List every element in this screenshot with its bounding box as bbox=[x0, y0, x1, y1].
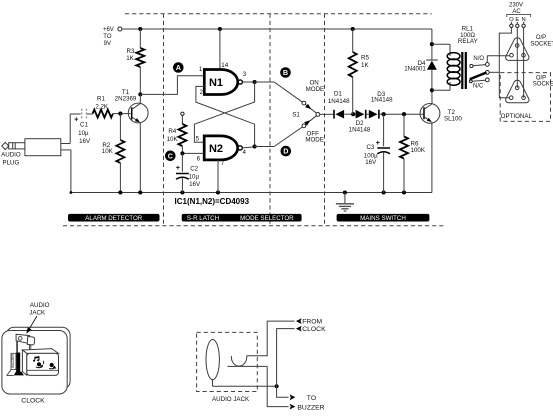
resistor R6 bbox=[400, 114, 408, 192]
label N/C bbox=[473, 83, 484, 89]
svg-text:O/P: O/P bbox=[536, 35, 546, 41]
svg-text:JACK: JACK bbox=[29, 310, 46, 317]
section frame bottom dashed line bbox=[63, 225, 446, 227]
label bar S-R LATCH / MODE SELECTOR bbox=[182, 214, 302, 222]
resistor R4 bbox=[178, 112, 186, 153]
relay contact N/O bbox=[470, 63, 489, 68]
svg-text:7: 7 bbox=[221, 160, 225, 167]
junction rail-R5 bbox=[351, 27, 355, 31]
arrow FROM bbox=[296, 318, 302, 324]
nand gate N2 bbox=[204, 136, 242, 160]
O/P socket2 body bbox=[506, 80, 529, 103]
capacitor C2 bbox=[176, 153, 189, 192]
label pin 5 bbox=[196, 136, 200, 143]
svg-text:TO: TO bbox=[103, 34, 112, 40]
label AUDIO JACK (clock) bbox=[29, 302, 49, 316]
transistor T1 bbox=[128, 94, 148, 192]
wire D1 to D2 bbox=[344, 113, 355, 115]
clock knob 1 bbox=[36, 361, 44, 368]
terminal N bbox=[522, 22, 525, 28]
svg-text:MAINS SWITCH: MAINS SWITCH bbox=[360, 215, 406, 222]
resistor R2 bbox=[116, 114, 124, 193]
label audio plug bbox=[1, 152, 21, 167]
label CLOCK bbox=[21, 398, 45, 405]
svg-text:D1: D1 bbox=[334, 91, 342, 98]
junction rail-R3 bbox=[138, 27, 142, 31]
wire R4 to N2 pin6 bbox=[182, 152, 204, 154]
wire S1 pole to D1 bbox=[320, 113, 334, 115]
svg-text:2N2369: 2N2369 bbox=[115, 95, 137, 102]
svg-text:C3: C3 bbox=[366, 144, 374, 151]
wire N1out cross to N2 pin5 bbox=[194, 82, 254, 142]
wire N2out cross to N1 pin2 bbox=[196, 86, 255, 146]
label FROM bbox=[302, 318, 322, 325]
svg-text:16V: 16V bbox=[79, 138, 91, 145]
svg-text:2.2K: 2.2K bbox=[95, 104, 109, 111]
node B bbox=[280, 67, 291, 78]
svg-text:1N4001: 1N4001 bbox=[404, 66, 426, 73]
supply terminal +6V bbox=[103, 27, 122, 47]
label R2 bbox=[102, 142, 114, 155]
svg-text:PLUG: PLUG bbox=[2, 159, 19, 166]
svg-text:16V: 16V bbox=[365, 159, 377, 166]
label R4 bbox=[167, 128, 179, 143]
svg-text:230V: 230V bbox=[509, 3, 523, 9]
arrow to jack bbox=[26, 316, 37, 334]
svg-text:SOCKET2: SOCKET2 bbox=[533, 82, 553, 88]
label ON MODE bbox=[306, 80, 325, 93]
capacitor C3 bbox=[376, 114, 390, 192]
node A bbox=[173, 62, 184, 73]
svg-text:MODE: MODE bbox=[306, 86, 325, 93]
wire rail to D4/relay bbox=[431, 29, 433, 90]
svg-text:B: B bbox=[283, 68, 288, 77]
svg-text:+: + bbox=[376, 138, 381, 147]
junction collector node bbox=[138, 92, 142, 96]
socket1 pin holes bbox=[510, 44, 526, 57]
svg-text:IC1(N1,N2)=CD4093: IC1(N1,N2)=CD4093 bbox=[175, 197, 250, 206]
label C2 bbox=[189, 166, 201, 188]
junction rail-plug bbox=[70, 191, 73, 194]
node D bbox=[281, 146, 292, 157]
switch S1 arm lower bbox=[304, 116, 316, 126]
svg-text:TO: TO bbox=[307, 395, 316, 402]
ground symbol bbox=[336, 193, 354, 212]
label pin 6 bbox=[197, 155, 201, 162]
diode D3 bbox=[369, 110, 379, 119]
svg-text:14: 14 bbox=[221, 62, 228, 69]
clock buzzer bbox=[7, 353, 24, 376]
wire top power rail bbox=[122, 28, 432, 30]
label OFF MODE bbox=[305, 131, 324, 144]
junction R6 node bbox=[402, 112, 406, 116]
section divider dashed x=324.5 bbox=[324, 14, 326, 226]
svg-text:AUDIO: AUDIO bbox=[1, 152, 21, 159]
svg-text:MODE: MODE bbox=[305, 137, 324, 144]
svg-text:SL100: SL100 bbox=[444, 115, 462, 122]
wire D3 to T2 base bbox=[379, 113, 424, 115]
label CLOCK (arrow) bbox=[302, 326, 326, 333]
junction rail-C3 bbox=[382, 190, 386, 194]
svg-text:BUZZER: BUZZER bbox=[11, 353, 15, 367]
label C1 bbox=[78, 122, 91, 145]
wire plug tip to C1 bbox=[61, 114, 81, 144]
wire spring to FROM bbox=[247, 321, 295, 356]
svg-text:C1: C1 bbox=[80, 122, 88, 129]
wire D2 to D3 bbox=[366, 113, 369, 115]
junction rail-pin14 bbox=[218, 27, 222, 31]
svg-text:10K: 10K bbox=[102, 148, 114, 155]
terminal E bbox=[516, 22, 519, 28]
wire collector to N1 pin1 bbox=[140, 76, 204, 95]
label S1 bbox=[292, 112, 300, 119]
diode D4 bbox=[426, 60, 437, 70]
audio plug bbox=[2, 139, 61, 156]
wire N to socket pins bbox=[523, 28, 525, 98]
svg-text:BUZZER: BUZZER bbox=[297, 405, 324, 412]
label O E N bbox=[507, 14, 531, 22]
wire bottom ground rail bbox=[71, 192, 432, 194]
label R5 bbox=[361, 54, 369, 68]
arrow TO bbox=[290, 394, 296, 400]
junction rail-R6 bbox=[402, 190, 406, 194]
O/P socket1 body bbox=[506, 38, 529, 61]
diode D1 bbox=[334, 110, 344, 119]
label C3 bbox=[364, 144, 378, 166]
svg-text:100K: 100K bbox=[411, 147, 426, 154]
arrow CLOCK bbox=[296, 326, 302, 332]
label D1 bbox=[328, 91, 350, 105]
label R3 bbox=[126, 48, 135, 62]
wire O to pole and socket2 bbox=[489, 28, 511, 98]
junction R5-diodes bbox=[351, 112, 355, 116]
clock music note glyph bbox=[33, 356, 39, 362]
switch S1 arm upper bbox=[305, 104, 316, 113]
resistor R3 bbox=[136, 29, 144, 94]
svg-text:10K: 10K bbox=[167, 136, 179, 143]
wire E to socket pins bbox=[516, 28, 518, 88]
svg-text:ALARM DETECTOR: ALARM DETECTOR bbox=[85, 215, 142, 222]
wire N1 output bbox=[242, 81, 254, 83]
transistor T2 bbox=[420, 90, 440, 192]
svg-text:N/C: N/C bbox=[473, 83, 484, 89]
label pin 2 bbox=[199, 89, 203, 96]
label O/P SOCKET1 bbox=[530, 35, 553, 47]
jack tip contact line bbox=[227, 365, 267, 367]
label bar MAINS SWITCH bbox=[337, 214, 430, 222]
svg-text:R5: R5 bbox=[361, 54, 369, 61]
resistor R1 bbox=[93, 110, 113, 118]
label pin 1 bbox=[199, 66, 203, 73]
junction sleeve node bbox=[275, 384, 279, 388]
svg-text:R4: R4 bbox=[168, 128, 176, 135]
clock jack wire bbox=[29, 345, 31, 357]
label bar ALARM DETECTOR bbox=[68, 214, 160, 222]
relay contact N/C bbox=[469, 78, 489, 83]
clock jack assembly bbox=[16, 334, 35, 352]
diode D2 bbox=[356, 110, 366, 119]
svg-text:+: + bbox=[74, 114, 79, 123]
svg-text:C2: C2 bbox=[190, 166, 198, 173]
label pin 3 bbox=[243, 71, 247, 78]
node C bbox=[165, 151, 176, 162]
label T1 bbox=[115, 89, 137, 102]
svg-text:1N4148: 1N4148 bbox=[349, 126, 371, 133]
junction rail-ground bbox=[343, 190, 347, 194]
wire pin7 to rail bbox=[217, 160, 219, 193]
svg-text:5: 5 bbox=[196, 136, 200, 143]
svg-text:+: + bbox=[176, 163, 181, 172]
svg-text:N2: N2 bbox=[209, 143, 223, 155]
wire CLOCK line bbox=[277, 329, 295, 398]
svg-text:MODE SELECTOR: MODE SELECTOR bbox=[240, 215, 294, 222]
junction relay bottom bbox=[430, 88, 434, 92]
junction rail-R2 bbox=[118, 190, 122, 194]
clock outer box bbox=[2, 327, 70, 394]
svg-text:O/P: O/P bbox=[536, 75, 546, 81]
svg-text:D: D bbox=[283, 147, 288, 156]
wire N/O to socket1 bbox=[487, 56, 510, 63]
resistor R5 bbox=[349, 29, 357, 114]
svg-text:CLOCK: CLOCK bbox=[21, 398, 45, 405]
svg-text:C: C bbox=[168, 151, 173, 160]
svg-text:AC: AC bbox=[512, 9, 521, 15]
section frame top dashed line bbox=[125, 13, 432, 15]
wire pin14 from rail bbox=[219, 29, 221, 70]
junction N2 out bbox=[253, 144, 257, 148]
svg-text:R1: R1 bbox=[97, 96, 105, 103]
junction R4-C2-pin6 bbox=[180, 151, 184, 155]
label AUDIO JACK (jack) bbox=[212, 396, 250, 403]
label T2 bbox=[444, 109, 462, 122]
svg-text:1K: 1K bbox=[126, 55, 134, 62]
label pin 4 bbox=[242, 149, 246, 156]
label BUZZER (arrow) bbox=[297, 405, 324, 412]
wire sleeve to clock vertical bbox=[213, 380, 277, 387]
svg-text:RELAY: RELAY bbox=[458, 38, 478, 45]
section divider dashed x=270 bbox=[269, 14, 271, 226]
svg-text:10µ: 10µ bbox=[189, 174, 200, 181]
relay armature arm bbox=[471, 73, 486, 79]
svg-text:S-R LATCH: S-R LATCH bbox=[187, 215, 219, 222]
wire N2out to S1 lower bbox=[255, 127, 303, 147]
section divider dashed x=163.5 bbox=[163, 14, 165, 226]
junction relay top bbox=[430, 42, 434, 46]
svg-text:S1: S1 bbox=[292, 112, 300, 119]
svg-text:AUDIO JACK: AUDIO JACK bbox=[212, 396, 250, 403]
label R1 bbox=[95, 96, 109, 111]
svg-text:AUDIO: AUDIO bbox=[30, 302, 50, 309]
svg-text:4: 4 bbox=[242, 149, 246, 156]
label IC1 bbox=[175, 197, 250, 206]
nand gate N1 bbox=[204, 70, 242, 95]
svg-text:1N4148: 1N4148 bbox=[371, 96, 393, 103]
wire plug sleeve to ground rail bbox=[61, 150, 71, 193]
label O/P SOCKET2 bbox=[533, 75, 553, 87]
svg-text:FROM: FROM bbox=[302, 318, 322, 325]
svg-text:A: A bbox=[176, 63, 181, 72]
svg-text:SOCKET1: SOCKET1 bbox=[530, 41, 553, 47]
switch S1 upper contact bbox=[302, 101, 306, 105]
optional dashed box bbox=[500, 73, 550, 122]
svg-text:N/O: N/O bbox=[473, 56, 484, 62]
svg-text:1N4148: 1N4148 bbox=[328, 98, 350, 105]
jack spring contact bbox=[231, 356, 246, 366]
junction base node bbox=[118, 112, 122, 116]
svg-text:+6V: +6V bbox=[103, 27, 114, 33]
wire tip to BUZZER bbox=[267, 366, 288, 406]
svg-text:1: 1 bbox=[199, 66, 203, 73]
svg-text:OPTIONAL: OPTIONAL bbox=[501, 113, 533, 120]
relay RL1 coil bbox=[432, 44, 466, 90]
label pin 7 bbox=[221, 160, 225, 167]
label pin 14 bbox=[221, 62, 228, 69]
wire C1 to R1 bbox=[87, 113, 93, 115]
label D3 bbox=[371, 91, 393, 104]
switch S1 pole bbox=[316, 113, 320, 117]
svg-text:6: 6 bbox=[197, 155, 201, 162]
label RL1 bbox=[458, 25, 478, 45]
wire N1out to S1 upper bbox=[255, 82, 303, 102]
svg-text:9V: 9V bbox=[104, 41, 111, 47]
junction rail-C2 bbox=[180, 190, 184, 194]
label R6 bbox=[411, 140, 426, 154]
svg-text:1K: 1K bbox=[361, 62, 369, 69]
wire R1 to T1 base bbox=[113, 113, 131, 115]
junction N1 out bbox=[253, 80, 257, 84]
label D4 bbox=[404, 60, 426, 73]
junction rail-pin7 bbox=[216, 190, 220, 194]
junction C3 node bbox=[382, 112, 386, 116]
switch S1 lower contact bbox=[302, 124, 306, 128]
label D2 bbox=[349, 120, 371, 133]
terminal O bbox=[510, 22, 513, 28]
relay contact pole bbox=[485, 71, 489, 75]
svg-text:16V: 16V bbox=[189, 181, 201, 188]
svg-text:CLOCK: CLOCK bbox=[302, 326, 326, 333]
clock knob 2 bbox=[49, 363, 56, 369]
socket2 pin holes bbox=[509, 86, 525, 99]
svg-text:3: 3 bbox=[243, 71, 247, 78]
audio jack dashed box bbox=[197, 332, 258, 391]
svg-text:10µ: 10µ bbox=[78, 130, 89, 137]
jack sleeve ellipse bbox=[206, 340, 219, 380]
label 230V AC bbox=[509, 3, 523, 15]
label TO bbox=[307, 395, 316, 402]
arrow BUZZER bbox=[290, 404, 296, 410]
label OPTIONAL bbox=[501, 113, 533, 120]
svg-text:N1: N1 bbox=[209, 77, 223, 89]
clock mechanism box bbox=[22, 349, 58, 376]
label N/O bbox=[473, 56, 484, 62]
junction rail-T1e bbox=[138, 190, 142, 194]
wire N2 output bbox=[242, 147, 254, 148]
capacitor C1 (ghosted) bbox=[74, 109, 86, 124]
svg-text:2: 2 bbox=[199, 89, 203, 96]
